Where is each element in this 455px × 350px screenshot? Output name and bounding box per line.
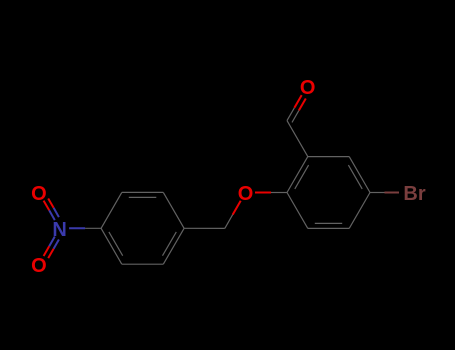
- svg-text:O: O: [31, 183, 47, 205]
- bond ether oxygen to benzylic CH2: [233, 201, 241, 215]
- aldehyde C=O double bond: [287, 108, 294, 121]
- benzene ring (left) edge C2-C3: [122, 191, 164, 193]
- benzene ring (left) edge C4-C5: [163, 228, 184, 264]
- aromatic inner line C1p-C2p: [295, 165, 309, 189]
- benzene ring (right) edge C2p-C3p: [287, 193, 308, 229]
- benzene ring (left) edge C3-C4: [163, 192, 184, 228]
- svg-text:Br: Br: [403, 183, 425, 205]
- bond ring C2p to ether oxygen: [271, 192, 287, 194]
- aromatic inner line C3p-C4p: [315, 222, 342, 224]
- bond ring C1p to aldehyde carbon: [287, 121, 308, 157]
- aromatic inner line C6-C1: [109, 232, 123, 256]
- benzene ring (right) edge C4p-C5p: [349, 193, 370, 229]
- aromatic inner line C2-C3: [129, 196, 157, 198]
- benzene ring (right) edge C1p-C2p: [287, 157, 308, 193]
- bond benzylic CH2 to left ring C4: [184, 227, 225, 229]
- svg-text:O: O: [300, 77, 316, 99]
- aromatic inner line C5p-C6p: [348, 165, 362, 189]
- benzene ring (right) edge C3p-C4p: [308, 227, 349, 229]
- bond nitrogen to left ring C1: [69, 227, 85, 229]
- benzene ring (left) edge C1-C2: [101, 192, 122, 228]
- bond ring C5p to bromine: [370, 192, 385, 194]
- benzene ring (left) edge C6-C1: [101, 228, 122, 264]
- svg-text:O: O: [31, 255, 47, 277]
- aromatic inner line C4-C5: [163, 232, 177, 256]
- nitro N=O double bond upper: [49, 210, 55, 220]
- benzene ring (right) edge C5p-C6p: [349, 157, 370, 193]
- nitro N=O double bond lower: [49, 237, 55, 247]
- benzene ring (left) edge C5-C6: [122, 263, 164, 265]
- benzene ring (right) edge C6p-C1p: [308, 156, 349, 158]
